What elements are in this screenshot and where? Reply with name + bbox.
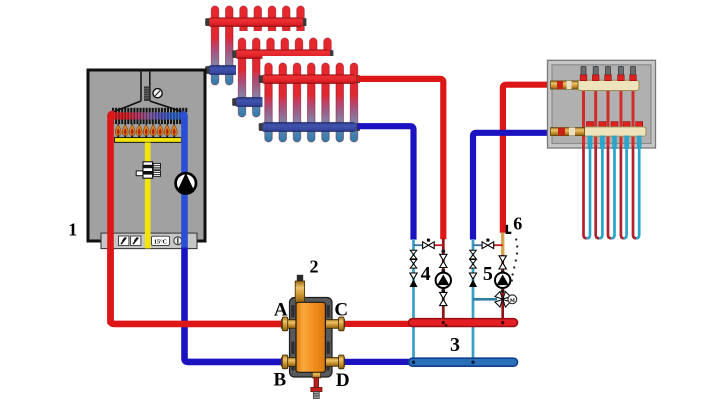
burner bar (115, 136, 182, 143)
wire: group 4 supply thin dark red to manifold (442, 239, 445, 323)
wire: blue return boiler to separator B (185, 248, 300, 362)
supply pipes inside cabinet (bright) (582, 88, 634, 146)
separator body (296, 302, 325, 372)
floor loop 5 supply leg (633, 88, 636, 238)
group 5 return isolation valve 1 (470, 250, 477, 259)
combustion chamber shoulders (111, 101, 185, 113)
heat exchanger fins top (0, 0, 1, 1)
radiator 2 columns (238, 38, 331, 117)
return manifold bar (584, 127, 646, 136)
floor manifold cabinet (548, 60, 656, 148)
blue pipe inside boiler (181, 114, 185, 248)
boiler pump (176, 173, 196, 194)
svg-text:15°C: 15°C (154, 238, 167, 245)
svg-text:3: 3 (450, 334, 460, 356)
svg-text:B: B (274, 369, 287, 390)
gas pipe yellow (145, 142, 151, 248)
radiator 2 top header (232, 50, 333, 59)
svg-text:D: D (336, 370, 350, 391)
return manifold outlets (588, 136, 642, 150)
boiler 1 casing (88, 70, 205, 241)
wire: blue separator D to return manifold (340, 359, 412, 365)
supply manifold valves (580, 66, 636, 80)
radiator 2 bottom header (232, 97, 333, 107)
radiator 3 columns (265, 63, 358, 142)
wire: group 5 cyan branch to mixing valve (473, 298, 497, 301)
wire: group 5 bypass (473, 244, 503, 246)
floor loop 4 return leg (624, 133, 627, 238)
radiator 1 bottom header (205, 65, 306, 75)
floor loop 3 return leg (611, 133, 614, 238)
flue duct (141, 70, 150, 101)
radiator 1 top header (205, 18, 306, 27)
floor loop 3 supply leg (608, 88, 611, 238)
supply manifold bar (578, 80, 640, 90)
wire: radiator return (blue) to group 4 (358, 126, 414, 239)
svg-text:M: M (510, 298, 516, 304)
group 5 bypass valve (482, 239, 494, 249)
boiler fan (153, 89, 162, 98)
svg-text:A: A (274, 299, 288, 320)
wire: floor return (blue) to group 5 (473, 133, 566, 240)
group 4 pump (436, 273, 451, 288)
radiator 2 white backing (236, 31, 343, 124)
boiler control panel (101, 233, 197, 249)
radiator 3 top header (259, 75, 360, 84)
manifold junction dots (412, 321, 505, 364)
wire: group 5 supply thin dark red to manifold (501, 255, 504, 323)
separator port D (325, 355, 345, 369)
group 4 check valve (410, 273, 418, 287)
heat exchanger fins bottom (112, 108, 187, 124)
svg-text:5: 5 (483, 263, 493, 285)
wire: group 4 bypass (414, 244, 444, 246)
wire: red supply boiler to separator A (111, 248, 300, 324)
wire: group 5 tan segment (501, 233, 504, 256)
sensor dotted wire (511, 238, 519, 281)
gas valve (136, 162, 160, 178)
separator port C (325, 317, 345, 331)
radiator 1 white backing (209, 0, 316, 92)
svg-text:C: C (334, 299, 348, 320)
group 5 check valve (469, 273, 477, 287)
return manifold connection nuts (587, 122, 643, 128)
floor loop 4 supply leg (621, 88, 624, 238)
group 5 supply isolation valve (499, 256, 506, 269)
wire: red separator C to supply manifold (340, 321, 412, 327)
radiator 3 bottom header (259, 122, 360, 132)
floor loop 2 supply leg (596, 88, 599, 238)
floor loop 5 return leg (636, 133, 639, 238)
floor loop 1 return leg (587, 133, 590, 238)
group 4 supply isolation valve (440, 254, 447, 267)
manifold 3: supply bar (red) (409, 319, 518, 327)
group 5 pipe unions (501, 271, 505, 293)
group 4 bypass valve (423, 239, 435, 249)
red pipe inside boiler (111, 114, 115, 324)
separator port B (282, 355, 298, 369)
group 4 lower valve (440, 292, 447, 305)
group 4 return isolation valve 2 (410, 260, 417, 269)
svg-text:2: 2 (310, 256, 319, 276)
group 4 pipe unions (442, 250, 446, 292)
return manifold inlet fitting (551, 128, 585, 136)
manifold 3: return bar (blue) (409, 358, 518, 366)
sensor corner mark L (506, 225, 512, 234)
separator port A (282, 317, 298, 331)
wire: group 4 return thin cyan to manifold (412, 239, 415, 362)
group 4 return isolation valve 1 (410, 250, 417, 259)
heat exchanger gradient band (107, 112, 188, 119)
floor loop 2 return leg (599, 133, 602, 238)
radiator 1 columns (211, 6, 304, 85)
group 5 mixing valve (492, 289, 513, 310)
separator drain valve (311, 372, 322, 398)
wire: radiator supply (red) from group 4 (357, 79, 443, 239)
group 5 pump (495, 273, 510, 288)
wire: group 5 return thin cyan to manifold (472, 239, 475, 362)
separator top air vent (295, 275, 304, 303)
group 5 mixing valve actuator (508, 295, 517, 304)
svg-text:6: 6 (513, 214, 522, 234)
floor loop 1 supply leg (584, 88, 587, 238)
flue restrictor block (144, 86, 149, 101)
wire: floor supply (red) from group 5 (503, 85, 552, 233)
svg-text:1: 1 (68, 220, 77, 240)
radiator 3 white backing (263, 56, 370, 149)
svg-text:4: 4 (421, 263, 431, 285)
burner flames (115, 124, 177, 136)
separator 2 mounting bracket (290, 298, 333, 378)
supply manifold inlet fitting (551, 81, 579, 89)
group 5 return isolation valve 2 (470, 260, 477, 269)
